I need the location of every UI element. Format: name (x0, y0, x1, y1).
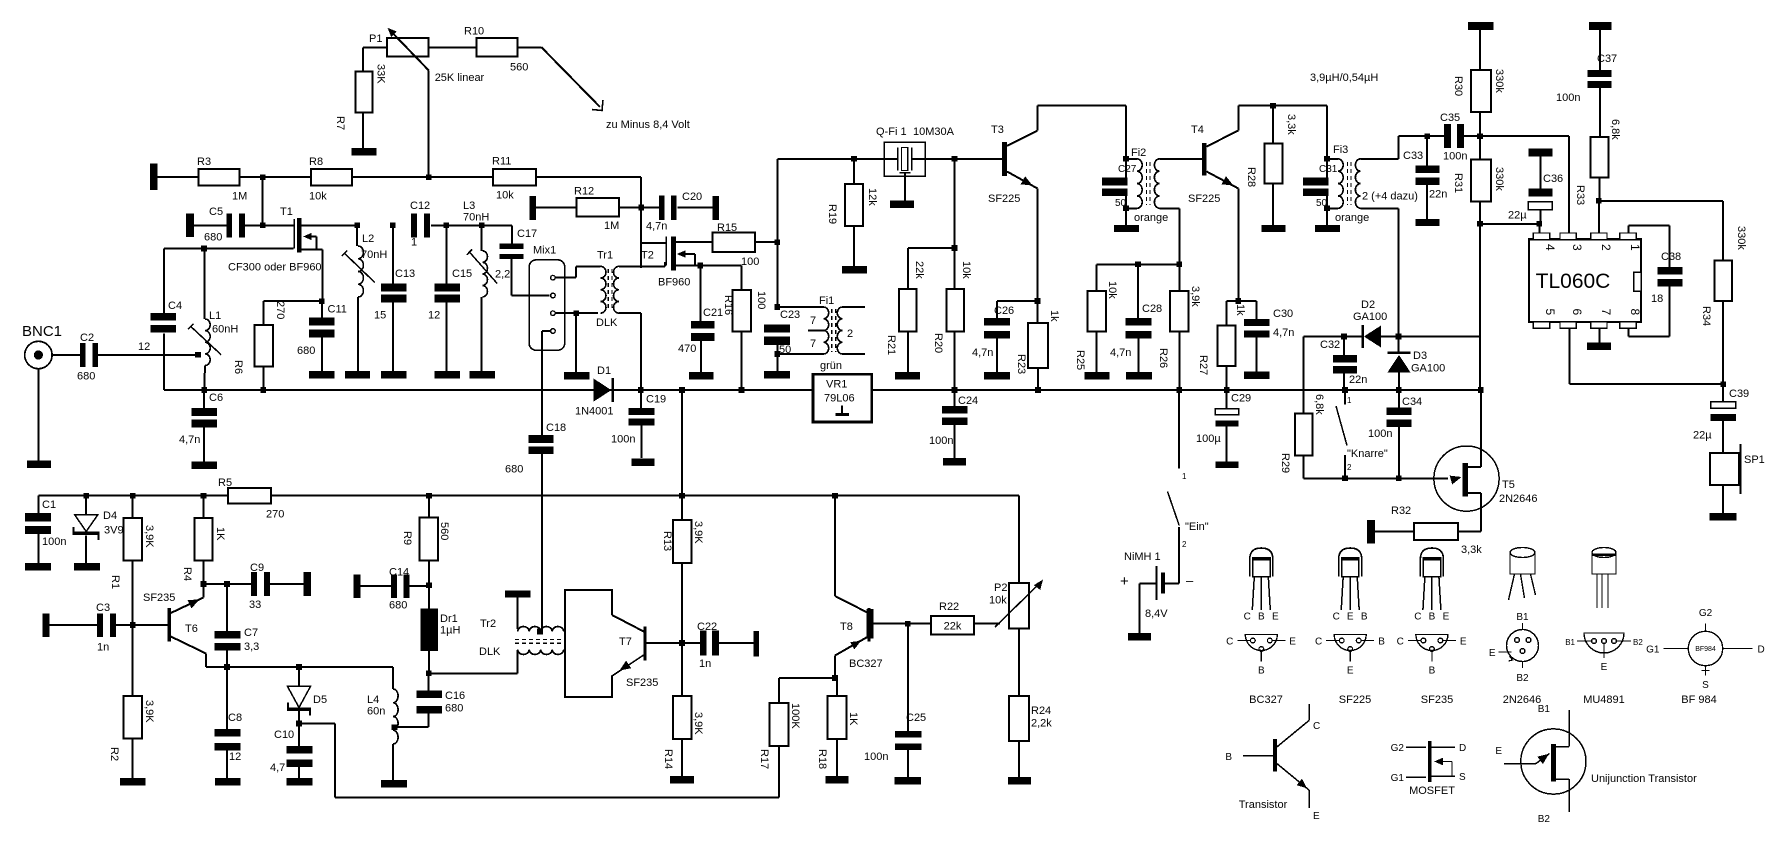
svg-text:T1: T1 (280, 206, 293, 218)
svg-text:560: 560 (510, 62, 528, 74)
svg-text:470: 470 (678, 343, 696, 355)
svg-text:1N4001: 1N4001 (575, 406, 614, 418)
svg-text:S: S (1459, 772, 1466, 783)
svg-text:C19: C19 (646, 394, 666, 406)
svg-text:100n: 100n (1443, 151, 1467, 163)
svg-text:8,4V: 8,4V (1145, 608, 1168, 620)
svg-text:SF235: SF235 (626, 677, 658, 689)
svg-text:R11: R11 (492, 156, 511, 168)
svg-text:Q-Fi 1: Q-Fi 1 (876, 126, 907, 138)
svg-text:2,2: 2,2 (495, 269, 510, 281)
svg-text:2: 2 (1182, 540, 1187, 549)
svg-text:R13: R13 (661, 531, 673, 551)
svg-text:C23: C23 (780, 309, 800, 321)
svg-text:GA100: GA100 (1411, 363, 1445, 375)
svg-text:R6: R6 (232, 360, 244, 374)
svg-text:25K linear: 25K linear (435, 72, 485, 84)
svg-text:R30: R30 (1452, 76, 1464, 96)
svg-text:Tr1: Tr1 (597, 250, 613, 262)
svg-text:6,8k: 6,8k (1313, 394, 1325, 415)
svg-text:12k: 12k (866, 188, 878, 206)
svg-text:4,7n: 4,7n (179, 434, 200, 446)
svg-text:E: E (1347, 666, 1354, 677)
svg-text:L3: L3 (463, 200, 475, 212)
svg-text:SF225: SF225 (988, 193, 1020, 205)
svg-text:D5: D5 (313, 694, 327, 706)
svg-text:C8: C8 (228, 712, 242, 724)
svg-text:GA100: GA100 (1353, 311, 1387, 323)
svg-text:3,9K: 3,9K (143, 700, 155, 723)
svg-text:CF300 oder BF960: CF300 oder BF960 (228, 262, 322, 274)
svg-text:C39: C39 (1729, 388, 1749, 400)
svg-text:C18: C18 (546, 422, 566, 434)
svg-text:C11: C11 (328, 304, 347, 316)
svg-text:B: B (1258, 612, 1265, 623)
svg-text:G2: G2 (1699, 608, 1713, 619)
svg-text:SF235: SF235 (1421, 694, 1453, 706)
svg-text:R8: R8 (309, 156, 323, 168)
svg-text:18: 18 (1651, 293, 1663, 305)
svg-text:D: D (1459, 743, 1466, 754)
svg-text:T6: T6 (185, 623, 198, 635)
svg-text:–: – (1186, 573, 1194, 588)
svg-text:L4: L4 (367, 694, 379, 706)
svg-text:4,7n: 4,7n (972, 347, 993, 359)
svg-text:C35: C35 (1440, 112, 1460, 124)
svg-text:1: 1 (1182, 472, 1187, 481)
svg-text:E: E (1272, 612, 1279, 623)
svg-text:22k: 22k (944, 621, 962, 633)
svg-text:C37: C37 (1597, 53, 1617, 65)
svg-text:R16: R16 (722, 295, 734, 315)
svg-text:2N2646: 2N2646 (1499, 493, 1538, 505)
svg-text:C2: C2 (80, 332, 94, 344)
svg-text:R1: R1 (109, 575, 121, 589)
svg-text:22µ: 22µ (1508, 210, 1527, 222)
svg-text:D2: D2 (1361, 299, 1375, 311)
svg-text:2 (+4 dazu): 2 (+4 dazu) (1362, 191, 1418, 203)
svg-text:R24: R24 (1031, 705, 1051, 717)
svg-text:C1: C1 (42, 499, 56, 511)
svg-text:L2: L2 (362, 233, 374, 245)
svg-text:DLK: DLK (479, 646, 501, 658)
svg-text:T4: T4 (1191, 124, 1204, 136)
svg-text:+: + (1120, 573, 1129, 590)
svg-text:C: C (1315, 637, 1322, 648)
svg-text:B: B (1225, 752, 1232, 763)
svg-text:G1: G1 (1646, 645, 1660, 656)
svg-text:C34: C34 (1402, 396, 1422, 408)
svg-text:R31: R31 (1452, 173, 1464, 193)
svg-text:B2: B2 (1516, 673, 1529, 684)
svg-text:orange: orange (1335, 212, 1369, 224)
svg-text:Tr2: Tr2 (480, 618, 496, 630)
svg-text:C4: C4 (168, 300, 182, 312)
svg-text:33: 33 (249, 599, 261, 611)
svg-text:BC327: BC327 (1249, 694, 1283, 706)
svg-text:1n: 1n (97, 642, 109, 654)
svg-text:60n: 60n (367, 706, 385, 718)
svg-text:1µH: 1µH (440, 625, 460, 637)
svg-text:R7: R7 (334, 116, 346, 130)
svg-text:T2: T2 (641, 250, 654, 262)
svg-text:S: S (1702, 680, 1709, 691)
svg-text:R12: R12 (574, 186, 594, 198)
svg-text:"Knarre": "Knarre" (1347, 448, 1388, 460)
svg-text:330k: 330k (1493, 69, 1505, 93)
svg-text:100n: 100n (1368, 428, 1392, 440)
svg-text:BF 984: BF 984 (1681, 694, 1716, 706)
svg-text:680: 680 (445, 703, 463, 715)
svg-text:R28: R28 (1245, 167, 1257, 187)
svg-text:79L06: 79L06 (824, 393, 855, 405)
svg-text:B2: B2 (1538, 814, 1551, 825)
svg-text:2: 2 (1347, 463, 1352, 472)
svg-text:100: 100 (755, 291, 767, 309)
svg-text:R3: R3 (197, 156, 211, 168)
svg-text:R17: R17 (758, 749, 770, 769)
svg-text:C: C (1226, 637, 1233, 648)
svg-text:R25: R25 (1074, 350, 1086, 370)
svg-text:C6: C6 (209, 392, 223, 404)
svg-text:C15: C15 (452, 268, 472, 280)
svg-text:Unijunction Transistor: Unijunction Transistor (1591, 773, 1697, 785)
svg-text:3,9µH/0,54µH: 3,9µH/0,54µH (1310, 72, 1378, 84)
svg-text:1: 1 (411, 237, 417, 249)
svg-text:10k: 10k (960, 261, 972, 279)
svg-text:60nH: 60nH (212, 324, 238, 336)
svg-text:R29: R29 (1279, 453, 1291, 473)
svg-text:P2: P2 (994, 582, 1007, 594)
svg-text:C30: C30 (1273, 308, 1293, 320)
svg-text:R5: R5 (218, 477, 232, 489)
svg-text:R18: R18 (816, 749, 828, 769)
svg-text:R15: R15 (717, 222, 737, 234)
svg-text:12: 12 (138, 341, 150, 353)
svg-text:BC327: BC327 (849, 658, 883, 670)
svg-text:B: B (1258, 666, 1265, 677)
svg-text:22n: 22n (1429, 189, 1447, 201)
svg-text:1k: 1k (1234, 304, 1246, 316)
svg-text:R34: R34 (1700, 306, 1712, 326)
svg-text:50: 50 (1115, 198, 1127, 209)
svg-text:1: 1 (1347, 396, 1352, 405)
svg-text:50: 50 (1316, 198, 1328, 209)
svg-text:grün: grün (820, 360, 842, 372)
svg-text:R22: R22 (939, 601, 959, 613)
svg-text:R10: R10 (464, 26, 484, 38)
svg-text:BF960: BF960 (658, 277, 690, 289)
svg-text:C32: C32 (1320, 339, 1340, 351)
svg-text:100: 100 (741, 256, 759, 268)
svg-text:D: D (1758, 645, 1765, 656)
svg-text:8: 8 (1628, 309, 1642, 316)
svg-text:SF235: SF235 (143, 592, 175, 604)
svg-text:R9: R9 (401, 531, 413, 545)
svg-text:MU4891: MU4891 (1583, 694, 1625, 706)
svg-text:7: 7 (810, 315, 816, 327)
svg-text:C24: C24 (958, 395, 978, 407)
svg-text:680: 680 (204, 232, 222, 244)
svg-text:T5: T5 (1502, 479, 1515, 491)
svg-text:E: E (1313, 811, 1320, 822)
svg-text:R19: R19 (826, 204, 838, 224)
svg-text:C10: C10 (274, 729, 294, 741)
svg-text:10M30A: 10M30A (913, 126, 955, 138)
svg-text:12: 12 (229, 751, 241, 763)
svg-text:1K: 1K (847, 712, 859, 726)
svg-text:100n: 100n (1556, 92, 1580, 104)
svg-text:C16: C16 (445, 690, 465, 702)
svg-text:6,8k: 6,8k (1609, 119, 1621, 140)
svg-text:560: 560 (438, 522, 450, 540)
svg-text:100n: 100n (611, 434, 635, 446)
svg-text:B1: B1 (1538, 704, 1551, 715)
svg-text:100n: 100n (929, 435, 953, 447)
svg-text:B1: B1 (1565, 638, 1575, 647)
svg-text:3,9k: 3,9k (1189, 286, 1201, 307)
svg-text:680: 680 (297, 345, 315, 357)
svg-text:C27: C27 (1118, 164, 1137, 175)
svg-text:3,3k: 3,3k (1285, 114, 1297, 135)
svg-text:B: B (1361, 612, 1368, 623)
svg-text:R21: R21 (885, 335, 897, 355)
svg-text:100n: 100n (864, 751, 888, 763)
svg-text:3V9: 3V9 (104, 525, 124, 537)
svg-text:DLK: DLK (596, 317, 618, 329)
svg-text:C17: C17 (517, 228, 537, 240)
svg-text:12: 12 (428, 310, 440, 322)
svg-text:680: 680 (77, 371, 95, 383)
svg-text:100n: 100n (42, 536, 66, 548)
svg-text:C14: C14 (389, 567, 409, 579)
svg-text:G1: G1 (1391, 773, 1405, 784)
svg-text:2: 2 (1599, 244, 1613, 251)
svg-text:R4: R4 (181, 567, 193, 581)
svg-text:1: 1 (1628, 244, 1642, 251)
svg-text:T7: T7 (619, 636, 632, 648)
svg-text:330k: 330k (1493, 167, 1505, 191)
svg-text:zu Minus 8,4 Volt: zu Minus 8,4 Volt (606, 119, 690, 131)
svg-text:70nH: 70nH (463, 212, 489, 224)
svg-text:C: C (1414, 612, 1421, 623)
svg-text:B: B (1429, 612, 1436, 623)
svg-text:6: 6 (1570, 309, 1584, 316)
svg-text:C29: C29 (1231, 393, 1251, 405)
svg-text:E: E (1443, 612, 1450, 623)
svg-text:BF984: BF984 (1695, 646, 1716, 653)
svg-text:D3: D3 (1413, 350, 1427, 362)
svg-text:680: 680 (505, 464, 523, 476)
svg-text:C36: C36 (1543, 173, 1563, 185)
svg-text:E: E (1289, 637, 1296, 648)
svg-text:7: 7 (810, 338, 816, 350)
svg-text:4,7n: 4,7n (1110, 347, 1131, 359)
svg-text:3: 3 (1570, 244, 1584, 251)
svg-text:C3: C3 (96, 602, 110, 614)
svg-text:Mix1: Mix1 (533, 245, 556, 257)
svg-text:SF225: SF225 (1339, 694, 1371, 706)
svg-text:4,7: 4,7 (270, 762, 285, 774)
svg-text:"Ein": "Ein" (1185, 521, 1209, 533)
svg-text:C31: C31 (1319, 164, 1338, 175)
svg-text:Dr1: Dr1 (440, 613, 458, 625)
svg-text:2: 2 (847, 328, 853, 340)
svg-text:3,3: 3,3 (244, 641, 259, 653)
svg-text:T3: T3 (991, 124, 1004, 136)
svg-text:1k: 1k (1048, 310, 1060, 322)
svg-text:D4: D4 (103, 510, 117, 522)
svg-text:10k: 10k (989, 595, 1007, 607)
svg-text:4,7n: 4,7n (646, 221, 667, 233)
svg-text:E: E (1460, 637, 1467, 648)
svg-text:22µ: 22µ (1693, 430, 1712, 442)
svg-text:SP1: SP1 (1744, 454, 1765, 466)
svg-text:NiMH 1: NiMH 1 (1124, 551, 1161, 563)
svg-text:22n: 22n (1349, 374, 1367, 386)
svg-text:MOSFET: MOSFET (1409, 785, 1455, 797)
svg-text:R32: R32 (1391, 505, 1411, 517)
svg-text:680: 680 (389, 600, 407, 612)
svg-text:10k: 10k (309, 191, 327, 203)
svg-text:C9: C9 (250, 562, 264, 574)
svg-text:SF225: SF225 (1188, 193, 1220, 205)
svg-text:P1: P1 (369, 33, 382, 45)
svg-text:B1: B1 (1516, 612, 1529, 623)
svg-text:R27: R27 (1197, 355, 1209, 375)
svg-text:C26: C26 (994, 305, 1014, 317)
svg-text:R33: R33 (1574, 185, 1586, 205)
svg-text:1K: 1K (214, 527, 226, 541)
svg-text:Fi1: Fi1 (819, 295, 834, 307)
svg-text:100µ: 100µ (1196, 433, 1221, 445)
svg-text:1n: 1n (699, 658, 711, 670)
svg-text:R14: R14 (662, 749, 674, 769)
svg-text:C21: C21 (703, 307, 723, 319)
svg-text:R26: R26 (1157, 348, 1169, 368)
svg-text:C: C (1244, 612, 1251, 623)
svg-text:C25: C25 (906, 712, 926, 724)
svg-text:C33: C33 (1403, 150, 1423, 162)
svg-text:2N2646: 2N2646 (1503, 694, 1542, 706)
svg-text:2,2k: 2,2k (1031, 718, 1052, 730)
svg-text:10k: 10k (496, 190, 514, 202)
svg-text:B: B (1429, 666, 1436, 677)
svg-text:270: 270 (274, 301, 286, 319)
svg-text:G2: G2 (1391, 743, 1405, 754)
svg-text:C20: C20 (682, 191, 702, 203)
svg-text:270: 270 (266, 509, 284, 521)
svg-text:C5: C5 (209, 206, 223, 218)
svg-text:B2: B2 (1633, 638, 1643, 647)
svg-text:R2: R2 (108, 747, 120, 761)
svg-text:E: E (1489, 648, 1496, 659)
svg-text:TL060C: TL060C (1536, 270, 1611, 293)
svg-text:E: E (1601, 662, 1608, 673)
svg-text:4,7n: 4,7n (1273, 327, 1294, 339)
svg-text:33K: 33K (375, 64, 387, 84)
svg-text:B: B (1378, 637, 1385, 648)
svg-text:1M: 1M (604, 220, 619, 232)
svg-text:7: 7 (1599, 309, 1613, 316)
svg-text:Transistor: Transistor (1239, 799, 1288, 811)
svg-text:Fi3: Fi3 (1333, 144, 1348, 156)
svg-text:C12: C12 (410, 200, 430, 212)
svg-text:D1: D1 (597, 365, 611, 377)
svg-text:R20: R20 (932, 333, 944, 353)
svg-text:C: C (1333, 612, 1340, 623)
svg-text:C28: C28 (1142, 303, 1162, 315)
svg-text:BNC1: BNC1 (22, 323, 62, 340)
svg-text:70nH: 70nH (361, 249, 387, 261)
svg-text:VR1: VR1 (826, 379, 847, 391)
svg-text:3,9K: 3,9K (692, 521, 704, 544)
svg-text:3,9K: 3,9K (692, 712, 704, 735)
svg-text:22k: 22k (913, 261, 925, 279)
svg-text:C13: C13 (395, 268, 415, 280)
svg-text:C22: C22 (697, 621, 717, 633)
svg-text:15: 15 (374, 310, 386, 322)
svg-text:L1: L1 (209, 310, 221, 322)
svg-text:T8: T8 (840, 621, 853, 633)
svg-text:E: E (1495, 746, 1502, 757)
svg-text:C38: C38 (1661, 251, 1681, 263)
svg-text:C: C (1397, 637, 1404, 648)
svg-text:1M: 1M (232, 191, 247, 203)
svg-text:5: 5 (1543, 309, 1557, 316)
svg-text:E: E (1347, 612, 1354, 623)
svg-text:3,9K: 3,9K (143, 525, 155, 548)
svg-text:C7: C7 (244, 627, 258, 639)
svg-text:3,3k: 3,3k (1461, 544, 1482, 556)
svg-text:100K: 100K (789, 703, 801, 729)
svg-text:R23: R23 (1015, 354, 1027, 374)
svg-text:4: 4 (1543, 244, 1557, 251)
svg-text:orange: orange (1134, 212, 1168, 224)
svg-text:Fi2: Fi2 (1131, 147, 1146, 159)
svg-text:330k: 330k (1735, 226, 1747, 250)
svg-text:C: C (1313, 721, 1320, 732)
svg-text:10k: 10k (1106, 281, 1118, 299)
